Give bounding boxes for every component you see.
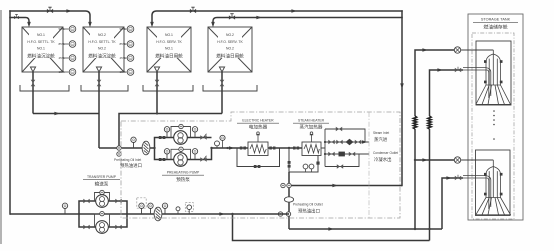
svg-text:电加热器: 电加热器 — [249, 124, 268, 131]
wire steam manifold vertical — [321, 129, 325, 167]
outlet valve tank4 — [221, 72, 223, 114]
svg-text:85%: 85% — [58, 42, 64, 46]
wire upper steam dip pipe — [463, 68, 491, 98]
heating coil unit upper — [476, 50, 512, 105]
svg-text:NO.2: NO.2 — [226, 47, 234, 51]
tank TK4 NO.2 H.F.O. SERV. TK — [203, 27, 257, 91]
OUTLET LINES — [233, 172, 443, 241]
gauges upper branch — [164, 127, 169, 138]
outlet valve tank3 — [156, 72, 158, 114]
tank TK3 NO.1 H.F.O. SERV. TK — [143, 27, 193, 91]
wire preheat discharge — [212, 147, 238, 149]
RISERS — [413, 50, 463, 241]
svg-text:15%: 15% — [58, 70, 64, 74]
valve V2 on line1 — [47, 7, 53, 13]
level switches tank1 — [63, 29, 69, 72]
instrument on lower storage feed — [454, 157, 460, 163]
svg-text:输送泵: 输送泵 — [95, 181, 109, 188]
wire transfer pump upper branch — [79, 201, 127, 214]
svg-text:燃料油日用舱: 燃料油日用舱 — [216, 53, 244, 60]
valve condensate bypass — [337, 164, 343, 169]
wire condensate bypass — [325, 154, 359, 167]
strainer main — [154, 207, 162, 221]
svg-text:85%: 85% — [119, 42, 125, 46]
PREHEATING PUMPS — [155, 138, 238, 160]
heater U2 STEAM HEATER box — [302, 132, 321, 156]
svg-text:Steam Inlet: Steam Inlet — [373, 131, 389, 135]
junction outlet — [287, 183, 291, 187]
svg-text:NO.1: NO.1 — [165, 33, 173, 37]
arrow into tank4 — [211, 22, 215, 27]
arrow on riser down — [400, 83, 404, 88]
wire lower steam dip pipe — [463, 176, 491, 209]
wire preheat pump upper branch — [155, 138, 212, 149]
wire bottom supply line — [233, 214, 430, 241]
expansion coil riser B — [428, 116, 431, 129]
gauge PI below steam heater — [309, 164, 314, 172]
heating coil unit lower — [476, 160, 512, 215]
arrow on line3 — [291, 9, 296, 13]
svg-text:90%: 90% — [58, 27, 64, 31]
relief loop upper pump — [171, 127, 191, 138]
svg-text:燃料油沉淀舱: 燃料油沉淀舱 — [88, 53, 116, 60]
wire bottom main line — [10, 213, 289, 215]
arrow discharge — [229, 146, 234, 150]
svg-text:Preheating Oil Outlet: Preheating Oil Outlet — [293, 203, 323, 207]
svg-text:预热泵: 预热泵 — [176, 176, 190, 183]
valve V3 on line3 — [190, 7, 196, 13]
gauge before transfer pumps — [62, 203, 67, 214]
relief loop transfer lower — [95, 214, 110, 227]
gauge outlet left — [281, 183, 285, 187]
relief loop lower pump — [171, 149, 191, 159]
tank TK1 NO.1 H.F.O. SETTL. TK — [20, 27, 69, 91]
ellipsis dots between tanks — [493, 110, 495, 140]
pump P2 preheating lower — [174, 153, 188, 167]
valves before electric heater — [240, 147, 243, 150]
battery limit partition line — [368, 112, 370, 218]
junction discharge — [226, 147, 228, 149]
junction transfer right — [126, 213, 128, 215]
wire riser A to upper storage — [415, 50, 461, 229]
junction between heaters — [288, 147, 290, 149]
junction transfer left — [78, 213, 80, 215]
LABELS — [83, 119, 329, 188]
valves preheat lower branch — [159, 158, 162, 161]
wire lower feed into unit — [461, 159, 493, 161]
valve steam 2 — [336, 140, 342, 145]
svg-text:燃料油日用舱: 燃料油日用舱 — [155, 53, 183, 60]
heating unit lower box — [476, 150, 511, 216]
relief loop transfer upper — [95, 193, 110, 202]
wire header tanks 3+4 — [119, 114, 222, 149]
gauges lower branch — [164, 149, 169, 160]
svg-text:NO.2: NO.2 — [226, 33, 234, 37]
wire oil return drop — [288, 172, 290, 229]
outlet valve tank2 — [98, 72, 100, 148]
wire riser B to upper storage — [430, 70, 464, 241]
STEAM TRAIN — [321, 129, 369, 167]
arrow into tank3 — [150, 22, 154, 27]
svg-text:NO.2: NO.2 — [98, 33, 106, 37]
svg-text:TRANSFER PUMP: TRANSFER PUMP — [87, 175, 117, 179]
pump P1 preheating upper — [174, 131, 188, 145]
wire riser C to lower storage — [442, 178, 463, 229]
valve lower storage steam — [455, 176, 461, 181]
gauge main 1 — [139, 203, 144, 214]
wire heater main line — [237, 147, 302, 149]
wire preheating oil outlet line — [289, 185, 402, 187]
wire condensate line — [325, 153, 369, 155]
valves after electric heater — [269, 147, 272, 150]
pump P4 transfer lower — [96, 221, 109, 234]
svg-text:ELECTRIC HEATER: ELECTRIC HEATER — [242, 119, 274, 123]
junction lower outlet — [286, 212, 290, 216]
junction riser A branch — [414, 159, 416, 161]
wire steam inlet line — [325, 141, 369, 143]
svg-text:预热油出口: 预热油出口 — [298, 208, 320, 215]
electric heater bypass — [237, 148, 280, 167]
valve steam 3 — [355, 140, 361, 145]
arrow bottom return — [328, 227, 333, 231]
wire transfer pump lower branch — [79, 214, 127, 227]
valves transfer upper — [83, 199, 89, 204]
wire top filling line 1 — [10, 11, 90, 24]
svg-text:Condenser Outlet: Condenser Outlet — [373, 151, 398, 155]
tank TK2 NO.2 H.F.O. SETTL. TK — [81, 27, 128, 91]
junction tank3 header — [156, 112, 158, 114]
storage tank outer box — [468, 14, 523, 220]
arrow main line — [219, 212, 224, 216]
arrow lower steam feed — [446, 176, 451, 180]
wire left vertical header — [9, 11, 11, 214]
svg-text:15%: 15% — [119, 70, 125, 74]
valve steam bypass — [336, 127, 342, 132]
wire top filling line 2 — [10, 18, 29, 25]
valve condensate 2 — [349, 152, 355, 157]
valve V4 on line4 — [229, 14, 235, 20]
junction bottom supply — [231, 213, 233, 215]
wire steam bypass top — [325, 129, 365, 142]
valves preheat upper branch — [159, 136, 162, 139]
arrow on line4 — [256, 16, 261, 20]
tabs lower unit — [484, 173, 487, 176]
heater U1 ELECTRIC HEATER box — [248, 132, 268, 156]
wire top filling line 3 — [152, 11, 402, 24]
svg-text:PREHEATING PUMP: PREHEATING PUMP — [167, 171, 200, 175]
instrument dashed box 2 — [185, 203, 193, 212]
edge artifact strip — [0, 10, 2, 244]
svg-text:NO.2: NO.2 — [98, 47, 106, 51]
unit skid dash-dot boundary — [121, 112, 400, 218]
gauge main 2 — [148, 203, 153, 214]
arrow into tank2 — [88, 22, 92, 27]
heating unit upper box — [476, 41, 511, 105]
filter steam diamond — [346, 139, 354, 145]
arrow into tank1 — [27, 22, 31, 27]
sample connection below tee — [117, 152, 121, 156]
junction bottom return riser B — [428, 228, 430, 230]
outlet valve tank1 — [32, 72, 34, 114]
arrow header12 — [54, 112, 59, 116]
arrow on line1 — [66, 9, 71, 13]
level switches tank2 — [124, 29, 127, 72]
svg-text:H.F.O. SETTL. TK: H.F.O. SETTL. TK — [27, 40, 55, 44]
instrument small main — [176, 207, 180, 214]
junction suction tee — [117, 146, 121, 150]
svg-text:H.F.O. SETTL. TK: H.F.O. SETTL. TK — [88, 40, 116, 44]
flow meter oval — [284, 197, 293, 202]
gauge suction — [131, 137, 136, 148]
svg-text:燃油储存舱: 燃油储存舱 — [484, 24, 508, 31]
junction bottom return riser A — [414, 228, 416, 230]
strainer suction — [142, 141, 150, 155]
arrow steam inlet — [362, 140, 367, 144]
svg-text:STEAM HEATER: STEAM HEATER — [298, 119, 325, 123]
svg-text:冷凝水出: 冷凝水出 — [374, 156, 392, 163]
wire preheat pump lower branch — [155, 148, 212, 160]
wire header tanks 1+2 — [33, 113, 99, 115]
svg-text:H.F.O. SERV. TK: H.F.O. SERV. TK — [217, 40, 243, 44]
instrument dashed box 1 — [137, 198, 146, 208]
wire upper feed into unit — [461, 49, 493, 51]
valves before steam heater — [293, 147, 296, 150]
steam trap box — [339, 152, 345, 157]
gauge lower outlet left — [278, 212, 282, 216]
gauge main 4 — [187, 205, 192, 214]
junction dots pump branches — [153, 147, 155, 149]
valve steam 1 — [328, 140, 334, 145]
arrow upper storage feed — [422, 48, 427, 52]
wire riser A branch to lower storage — [415, 159, 461, 161]
svg-text:预热油进口: 预热油进口 — [120, 162, 142, 169]
svg-text:NO.1: NO.1 — [37, 33, 45, 37]
svg-text:NO.1: NO.1 — [37, 47, 45, 51]
wire bottom return line — [289, 228, 442, 230]
gauge discharge 1 — [215, 141, 220, 148]
svg-text:90%: 90% — [119, 27, 125, 31]
valves transfer lower — [83, 225, 89, 230]
valve condensate 1 — [328, 152, 334, 157]
arrow lower storage feed — [422, 158, 427, 162]
svg-text:STORAGE TANK: STORAGE TANK — [481, 18, 511, 22]
svg-text:蒸汽加热器: 蒸汽加热器 — [300, 124, 323, 131]
arrow outlet line — [332, 184, 337, 188]
steam heater drain bypass — [289, 148, 318, 172]
valve V1 on line2 — [14, 14, 19, 19]
arrow upper steam feed — [437, 68, 442, 72]
gauge discharge 2 — [220, 135, 225, 148]
expansion coil riser A — [413, 116, 416, 129]
wire riser to manifold — [401, 11, 403, 186]
svg-text:蒸汽进: 蒸汽进 — [374, 136, 388, 143]
storage tank inner dashed boundary — [472, 33, 514, 219]
wire pump suction line — [99, 147, 155, 149]
wire top filling line 4 — [213, 18, 402, 25]
tabs upper unit — [484, 60, 487, 63]
pump P3 transfer upper — [96, 195, 109, 208]
instrument on upper storage feed — [454, 47, 460, 53]
svg-text:H.F.O. SERV. TK: H.F.O. SERV. TK — [156, 40, 182, 44]
gauge TI below steam heater — [303, 164, 308, 172]
svg-text:NO.1: NO.1 — [165, 47, 173, 51]
svg-text:燃料油沉淀舱: 燃料油沉淀舱 — [27, 53, 55, 60]
valve upper storage steam — [455, 68, 461, 73]
gauge main 3 — [162, 203, 167, 214]
svg-text:Preheating Oil Inlet: Preheating Oil Inlet — [114, 158, 141, 162]
svg-text:45%: 45% — [58, 56, 64, 60]
svg-text:45%: 45% — [119, 56, 125, 60]
